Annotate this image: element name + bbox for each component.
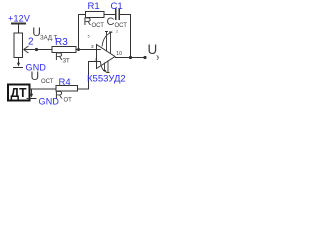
svg-text:R3: R3 <box>55 37 68 48</box>
svg-text:3: 3 <box>91 44 94 49</box>
ground bar at potentiometer <box>13 67 23 69</box>
node: wiper junction dot <box>35 48 38 51</box>
svg-text:4: 4 <box>95 57 98 62</box>
svg-text:U: U <box>31 69 40 83</box>
svg-text:10: 10 <box>116 51 122 57</box>
svg-text:ДТ: ДТ <box>11 86 27 100</box>
temperature sensor DT box <box>8 85 30 101</box>
resistor R1 body <box>86 12 105 18</box>
wire R1 to C1 <box>104 14 116 16</box>
node: feedback junction dot <box>77 48 80 51</box>
wire feedback vertical left <box>79 15 86 50</box>
inverting input dash inside op-amp <box>97 49 101 51</box>
svg-text:у: у <box>157 54 160 61</box>
wire C1 to output node vertical <box>120 15 131 58</box>
op-amp top correction pin stubs <box>105 32 112 54</box>
+12V terminal bar <box>11 23 26 25</box>
capacitor C1 plates <box>116 9 120 21</box>
arc hop over bottom correction pins <box>101 62 109 73</box>
svg-text:ОСТ: ОСТ <box>115 23 128 29</box>
svg-text:К553УД2: К553УД2 <box>87 74 126 85</box>
op-amp U1 triangle <box>97 45 116 69</box>
ground arrow at potentiometer <box>17 63 20 67</box>
ground arrow at sensor <box>30 94 33 98</box>
potentiometer R2 wiper arrow <box>24 46 39 53</box>
svg-text:ЗТ: ЗТ <box>63 59 70 65</box>
svg-text:ОСТ: ОСТ <box>92 23 105 29</box>
svg-text:C1: C1 <box>111 1 123 12</box>
non-inverting input dash inside op-amp <box>97 61 101 63</box>
svg-text:ОТ: ОТ <box>64 98 73 104</box>
wire potentiometer bottom to ground <box>18 58 20 65</box>
svg-text:R4: R4 <box>59 77 71 88</box>
wire R4 to op-amp non-inverting input <box>78 62 97 90</box>
wire R3 to op-amp inverting input <box>76 49 96 51</box>
arc hop over top correction pins <box>102 32 113 47</box>
svg-text:ОСТ: ОСТ <box>41 79 54 85</box>
node: feedback to output junction dot <box>129 56 132 59</box>
wiper wire to R3 <box>24 49 52 51</box>
svg-text:2: 2 <box>116 30 118 34</box>
wire from +12V to potentiometer R2 <box>18 25 20 34</box>
svg-text:C: C <box>107 16 115 28</box>
svg-text:R: R <box>55 90 63 102</box>
output terminal dot <box>143 56 146 59</box>
svg-text:5: 5 <box>88 35 90 39</box>
wire sensor to R4 <box>30 88 56 90</box>
svg-text:+12V: +12V <box>8 13 30 23</box>
wire stub to sensor ground <box>31 89 33 94</box>
potentiometer R2 body <box>14 33 23 58</box>
svg-text:R1: R1 <box>88 1 100 12</box>
ground bar at sensor <box>27 98 37 100</box>
output wire <box>115 57 145 59</box>
resistor R4 body <box>56 86 78 92</box>
resistor R3 body <box>52 47 76 53</box>
svg-text:R: R <box>84 16 92 28</box>
op-amp bottom correction pin stubs <box>103 61 110 73</box>
